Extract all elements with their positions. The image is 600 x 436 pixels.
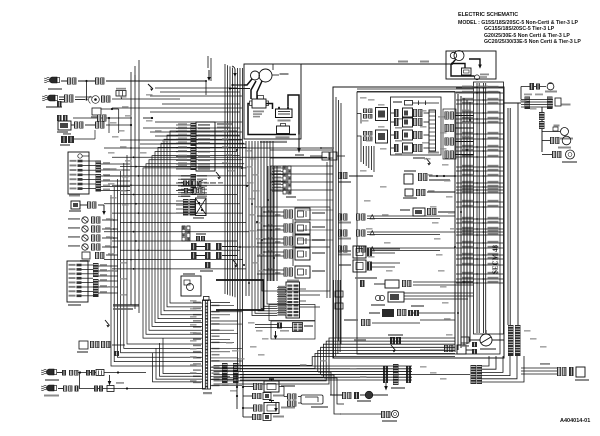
- svg-text:SECM 48: SECM 48: [492, 245, 500, 274]
